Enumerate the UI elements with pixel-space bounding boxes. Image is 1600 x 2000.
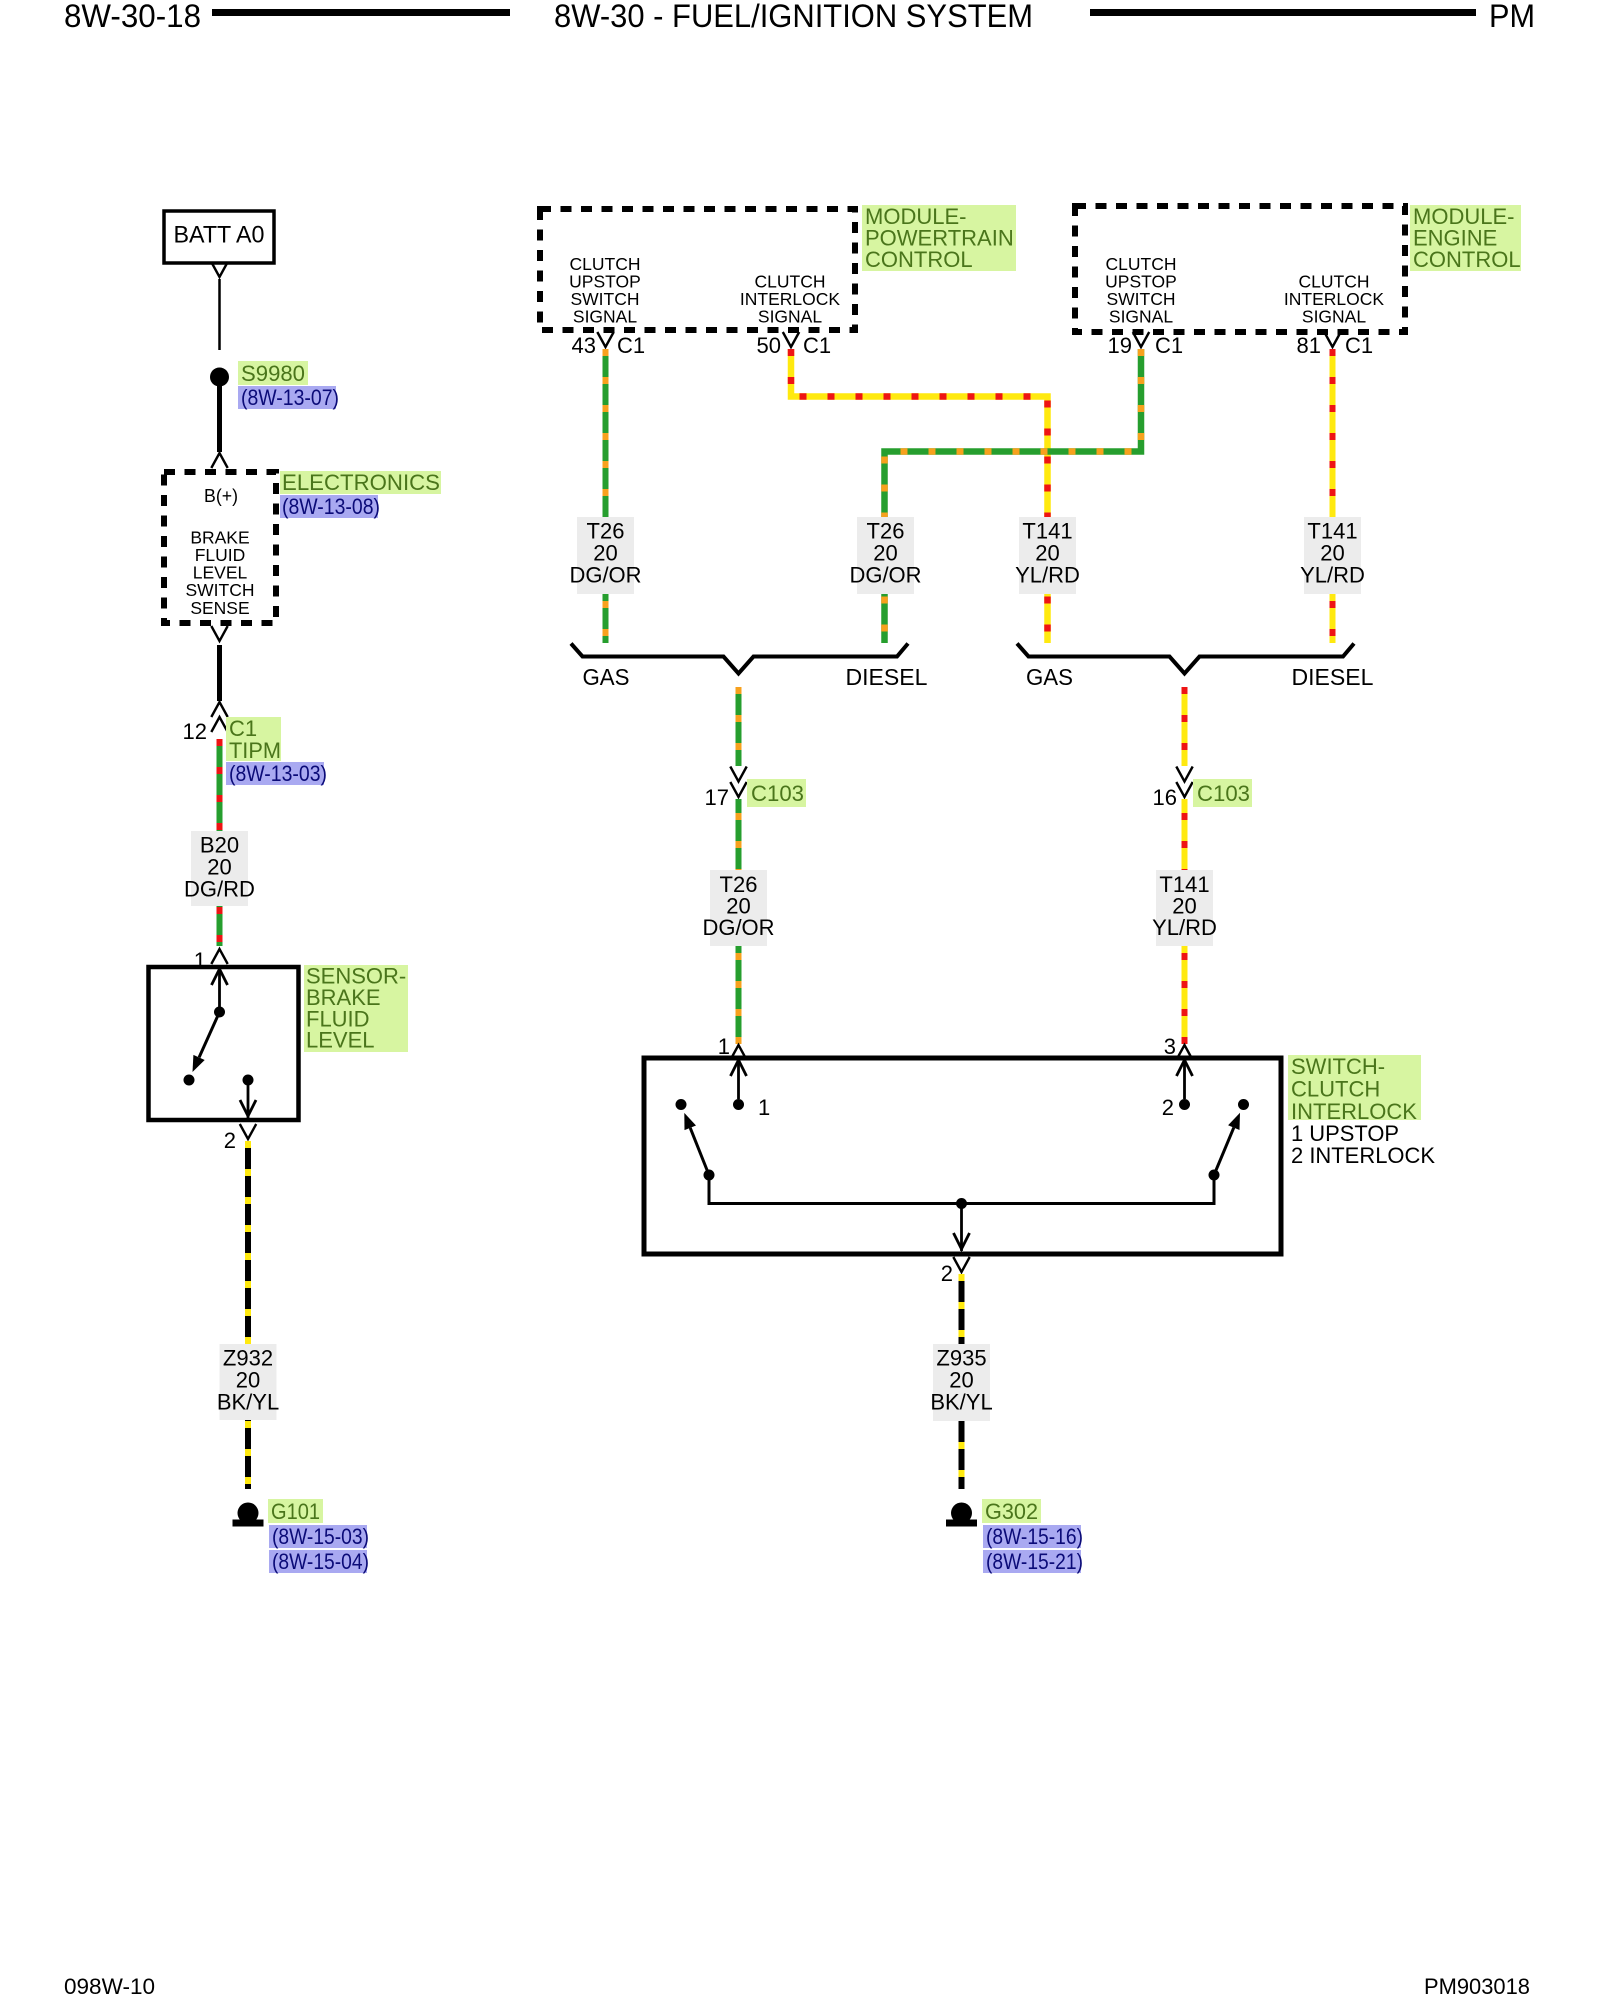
text 2 INTERLOCK bbox=[1291, 1143, 1435, 1168]
text GAS (T141) bbox=[1026, 664, 1073, 690]
sensor switch pivot dot bbox=[214, 1007, 225, 1018]
svg-text:PM903018: PM903018 bbox=[1424, 1974, 1530, 1999]
wire T26 DG/OR diesel branch bbox=[885, 349, 1142, 643]
wire Z935 BK/YL bbox=[959, 1274, 965, 1489]
svg-text:19: 19 bbox=[1108, 333, 1132, 358]
svg-text:(8W-13-07): (8W-13-07) bbox=[241, 385, 339, 410]
label T26 20 DG/OR merged bbox=[702, 870, 774, 946]
splice S9980 bbox=[210, 368, 229, 387]
svg-text:GAS: GAS bbox=[583, 664, 630, 690]
svg-text:YL/RD: YL/RD bbox=[1152, 915, 1217, 940]
sensor pin 2 contact dot bbox=[243, 1075, 254, 1086]
svg-text:C103: C103 bbox=[1197, 781, 1250, 806]
text CLUTCH INTERLOCK SIGNAL (PCM) bbox=[740, 272, 840, 327]
svg-text:43: 43 bbox=[572, 333, 596, 358]
wire T141 merged lower bbox=[1182, 799, 1188, 1044]
switch pin 2 internal arrow bbox=[1177, 1058, 1193, 1099]
switch upstop arm bbox=[684, 1113, 709, 1175]
text DIESEL (T26) bbox=[846, 664, 928, 690]
battery feed box BATT A0 bbox=[164, 211, 274, 263]
label (8W-13-07) bbox=[238, 385, 339, 410]
svg-text:CONTROL: CONTROL bbox=[865, 247, 973, 272]
label (8W-15-21) bbox=[983, 1549, 1083, 1574]
connector chevron B(+) entry bbox=[211, 453, 227, 468]
text DIESEL (T141) bbox=[1292, 664, 1374, 690]
connector chevron sensor pin 1 bbox=[211, 949, 227, 964]
footer drawing number PM903018 bbox=[1424, 1974, 1530, 1999]
svg-text:(8W-15-04): (8W-15-04) bbox=[272, 1549, 369, 1574]
svg-text:DIESEL: DIESEL bbox=[846, 664, 928, 690]
pin number 16 bbox=[1153, 785, 1177, 810]
svg-text:DG/OR: DG/OR bbox=[569, 563, 641, 588]
svg-text:LEVEL: LEVEL bbox=[306, 1028, 375, 1053]
label SENSOR-BRAKE FLUID LEVEL bbox=[304, 964, 408, 1053]
svg-text:2: 2 bbox=[224, 1128, 236, 1153]
header left rule bbox=[212, 9, 510, 16]
switch common junction dot bbox=[956, 1198, 967, 1209]
svg-text:G302: G302 bbox=[985, 1499, 1038, 1524]
svg-text:BK/YL: BK/YL bbox=[930, 1390, 992, 1415]
label T141 20 YL/RD diesel bbox=[1300, 517, 1365, 594]
svg-text:17: 17 bbox=[705, 785, 729, 810]
svg-text:TIPM: TIPM bbox=[229, 738, 281, 763]
pin number 1 bbox=[194, 948, 206, 973]
text CLUTCH INTERLOCK SIGNAL (ECM) bbox=[1284, 272, 1384, 327]
sensor pin 2 internal arrow bbox=[240, 1080, 256, 1118]
text BRAKE FLUID LEVEL SWITCH SENSE bbox=[185, 528, 254, 618]
label G302 bbox=[982, 1499, 1041, 1524]
pin number 12 bbox=[183, 719, 207, 744]
sensor pin 1 internal arrow bbox=[212, 967, 228, 1007]
svg-text:(8W-15-03): (8W-15-03) bbox=[272, 1524, 369, 1549]
footer sheet number 098W-10 bbox=[64, 1974, 155, 1999]
svg-text:G101: G101 bbox=[271, 1499, 320, 1524]
label (8W-13-03) bbox=[226, 761, 327, 786]
svg-text:C1: C1 bbox=[617, 333, 645, 358]
svg-text:50: 50 bbox=[757, 333, 781, 358]
connector chevron below BATT A0 bbox=[211, 262, 227, 277]
pin number 17 bbox=[705, 785, 729, 810]
svg-text:B(+): B(+) bbox=[204, 486, 238, 506]
switch pin 2 label bbox=[1162, 1095, 1174, 1120]
in-line connector C1 double chevron bbox=[211, 702, 227, 732]
svg-text:3: 3 bbox=[1164, 1034, 1176, 1059]
label (8W-15-03) bbox=[269, 1524, 369, 1549]
svg-text:2 INTERLOCK: 2 INTERLOCK bbox=[1291, 1143, 1435, 1168]
wire electronics to C1 connector bbox=[217, 645, 222, 701]
svg-text:2: 2 bbox=[1162, 1095, 1174, 1120]
label SWITCH-CLUTCH INTERLOCK bbox=[1288, 1054, 1421, 1124]
svg-text:16: 16 bbox=[1153, 785, 1177, 810]
svg-text:SIGNAL: SIGNAL bbox=[573, 307, 637, 327]
svg-text:DG/OR: DG/OR bbox=[702, 915, 774, 940]
merge brace gas/diesel T141 bbox=[1017, 644, 1354, 674]
label (8W-15-16) bbox=[983, 1524, 1083, 1549]
label C103 (16) bbox=[1193, 779, 1252, 807]
svg-text:8W-30 - FUEL/IGNITION SYSTEM: 8W-30 - FUEL/IGNITION SYSTEM bbox=[554, 0, 1033, 34]
wire T26 merged lower bbox=[736, 799, 742, 1044]
component box SENSOR-BRAKE FLUID LEVEL bbox=[149, 967, 299, 1120]
svg-text:YL/RD: YL/RD bbox=[1300, 563, 1365, 588]
svg-text:YL/RD: YL/RD bbox=[1015, 563, 1080, 588]
svg-text:1: 1 bbox=[758, 1095, 770, 1120]
connector chevron switch pin 1 bbox=[730, 1045, 746, 1060]
label (8W-15-04) bbox=[269, 1549, 369, 1574]
component box SWITCH-CLUTCH INTERLOCK bbox=[644, 1058, 1281, 1254]
label MODULE-ENGINE CONTROL bbox=[1410, 204, 1521, 272]
svg-text:BK/YL: BK/YL bbox=[217, 1390, 279, 1415]
svg-text:DIESEL: DIESEL bbox=[1292, 664, 1374, 690]
svg-text:SENSE: SENSE bbox=[190, 598, 249, 618]
svg-text:S9980: S9980 bbox=[241, 361, 305, 386]
connector chevron electronics exit bbox=[211, 626, 227, 641]
svg-text:C1: C1 bbox=[1155, 333, 1183, 358]
svg-text:(8W-15-16): (8W-15-16) bbox=[986, 1524, 1083, 1549]
svg-text:12: 12 bbox=[183, 719, 207, 744]
pin number 2 bbox=[224, 1128, 236, 1153]
label Z932 20 BK/YL bbox=[217, 1344, 279, 1420]
switch common link bbox=[709, 1175, 1214, 1204]
svg-text:098W-10: 098W-10 bbox=[64, 1974, 155, 1999]
wire B20 DG/RD bbox=[217, 739, 223, 946]
switch pin 2 dot bbox=[1179, 1099, 1190, 1110]
text CLUTCH UPSTOP SWITCH SIGNAL (PCM) bbox=[569, 254, 641, 327]
ground G101 symbol bbox=[233, 1503, 264, 1527]
module ELECTRONICS dashed box bbox=[164, 472, 276, 623]
wire T141 YL/RD gas branch bbox=[791, 349, 1048, 643]
connector chevron switch pin 3 bbox=[1176, 1045, 1192, 1060]
svg-text:(8W-13-03): (8W-13-03) bbox=[229, 761, 327, 786]
svg-text:SIGNAL: SIGNAL bbox=[1302, 307, 1366, 327]
pin 81 C1 exit bbox=[1297, 332, 1374, 358]
svg-text:CONTROL: CONTROL bbox=[1413, 247, 1521, 272]
switch interlock pivot dot bbox=[1209, 1170, 1220, 1181]
switch upstop contact dot bbox=[676, 1099, 687, 1110]
header page number 8W-30-18 bbox=[64, 0, 201, 34]
label MODULE-POWERTRAIN CONTROL bbox=[862, 204, 1016, 272]
wire Z932 BK/YL bbox=[245, 1141, 251, 1489]
pin 43 C1 exit bbox=[572, 332, 646, 358]
svg-text:PM: PM bbox=[1489, 0, 1535, 34]
header title 8W-30 - FUEL/IGNITION SYSTEM bbox=[554, 0, 1033, 34]
svg-text:DG/OR: DG/OR bbox=[849, 563, 921, 588]
header right rule bbox=[1090, 9, 1476, 16]
svg-text:C1: C1 bbox=[803, 333, 831, 358]
svg-text:(8W-15-21): (8W-15-21) bbox=[986, 1549, 1083, 1574]
svg-text:SWITCH-: SWITCH- bbox=[1291, 1054, 1385, 1079]
switch interlock arm bbox=[1214, 1113, 1240, 1175]
module MODULE-POWERTRAIN CONTROL dashed box bbox=[540, 209, 855, 330]
switch pin 1 label bbox=[758, 1095, 770, 1120]
sensor switch arm bbox=[193, 1012, 220, 1072]
wire T26 DG/OR gas branch bbox=[603, 349, 609, 643]
svg-text:BATT A0: BATT A0 bbox=[174, 222, 265, 249]
svg-text:GAS: GAS bbox=[1026, 664, 1073, 690]
switch pin 1 dot bbox=[733, 1099, 744, 1110]
module MODULE-ENGINE CONTROL dashed box bbox=[1075, 206, 1405, 332]
pin 50 C1 exit bbox=[757, 332, 832, 358]
svg-text:C1: C1 bbox=[1345, 333, 1373, 358]
label G101 bbox=[268, 1499, 323, 1524]
svg-text:DG/RD: DG/RD bbox=[184, 877, 255, 902]
wire A0 thin feed bbox=[218, 279, 221, 350]
merge brace gas/diesel T26 bbox=[571, 644, 908, 674]
in-line connector C103 double chevron (17) bbox=[730, 767, 746, 798]
connector chevron switch pin 2 exit bbox=[953, 1257, 969, 1272]
text 1 UPSTOP bbox=[1291, 1121, 1399, 1146]
pin label B(+) bbox=[204, 486, 238, 506]
label C103 (17) bbox=[747, 779, 806, 807]
text CLUTCH UPSTOP SWITCH SIGNAL (ECM) bbox=[1105, 254, 1177, 327]
label T26 20 DG/OR diesel bbox=[849, 517, 921, 594]
wire S9980 to electronics module bbox=[217, 386, 222, 452]
svg-text:CLUTCH: CLUTCH bbox=[1291, 1076, 1380, 1101]
svg-text:(8W-13-08): (8W-13-08) bbox=[282, 494, 380, 519]
wire T141 merged upper bbox=[1182, 687, 1188, 766]
pin number 1 (switch entry) bbox=[718, 1034, 730, 1059]
label Z935 20 BK/YL bbox=[930, 1344, 992, 1421]
label B20 20 DG/RD bbox=[184, 831, 255, 906]
svg-text:C103: C103 bbox=[751, 781, 804, 806]
text GAS (T26) bbox=[583, 664, 630, 690]
label T141 20 YL/RD merged bbox=[1152, 870, 1217, 946]
svg-text:ELECTRONICS: ELECTRONICS bbox=[282, 470, 440, 495]
pin number 2 (switch exit) bbox=[941, 1261, 953, 1286]
sensor switch contact dot bbox=[184, 1075, 195, 1086]
label T26 20 DG/OR gas bbox=[569, 517, 641, 594]
label T141 20 YL/RD gas bbox=[1015, 517, 1080, 594]
svg-text:1: 1 bbox=[718, 1034, 730, 1059]
label C1 TIPM bbox=[226, 716, 281, 763]
in-line connector C103 double chevron (16) bbox=[1176, 767, 1192, 798]
svg-text:2: 2 bbox=[941, 1261, 953, 1286]
header PM bbox=[1489, 0, 1535, 34]
svg-text:SIGNAL: SIGNAL bbox=[1109, 307, 1173, 327]
label (8W-13-08) bbox=[280, 494, 380, 519]
pin number 3 (switch entry) bbox=[1164, 1034, 1176, 1059]
ground G302 symbol bbox=[946, 1503, 977, 1527]
pin 19 C1 exit bbox=[1108, 332, 1184, 358]
svg-text:8W-30-18: 8W-30-18 bbox=[64, 0, 201, 34]
label ELECTRONICS bbox=[280, 470, 441, 495]
wire T141 YL/RD diesel branch bbox=[1330, 349, 1336, 643]
svg-text:SIGNAL: SIGNAL bbox=[758, 307, 822, 327]
switch pin 1 internal arrow bbox=[731, 1058, 747, 1099]
label S9980 bbox=[238, 361, 308, 386]
switch upstop pivot dot bbox=[704, 1170, 715, 1181]
switch interlock contact dot bbox=[1238, 1099, 1249, 1110]
wire T26 merged upper bbox=[736, 687, 742, 766]
switch common exit arrow bbox=[954, 1204, 970, 1252]
connector chevron sensor pin 2 bbox=[240, 1124, 256, 1139]
svg-text:81: 81 bbox=[1297, 333, 1321, 358]
